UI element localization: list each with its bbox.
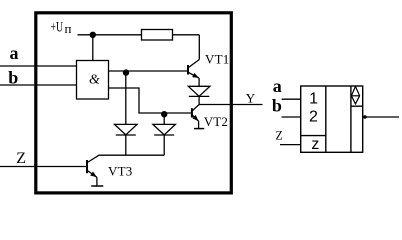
svg-text:Z: Z xyxy=(276,129,283,143)
svg-text:a: a xyxy=(10,43,19,63)
svg-text:VT2: VT2 xyxy=(204,114,228,129)
svg-text:b: b xyxy=(272,96,282,116)
svg-text:1: 1 xyxy=(309,91,318,108)
svg-text:п: п xyxy=(65,21,72,36)
svg-text:2: 2 xyxy=(309,108,318,125)
svg-text:Y: Y xyxy=(246,90,256,105)
svg-text:Z: Z xyxy=(16,150,26,167)
svg-text:+U: +U xyxy=(51,20,64,36)
svg-text:VT3: VT3 xyxy=(108,163,132,178)
svg-text:z: z xyxy=(311,136,319,153)
svg-text:b: b xyxy=(8,68,18,88)
svg-text:VT1: VT1 xyxy=(205,51,229,66)
svg-text:&: & xyxy=(89,73,100,88)
svg-text:a: a xyxy=(273,76,282,96)
